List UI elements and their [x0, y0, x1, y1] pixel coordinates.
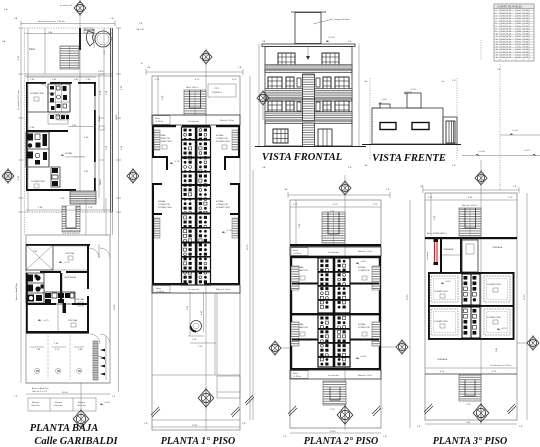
right arcs above ramp — [90, 334, 100, 344]
kitchen fixtures column — [51, 167, 60, 187]
stairs at top (from plan A bottom) — [61, 205, 63, 207]
office upper block: top-left empty room — [26, 245, 53, 270]
svg-text:+8.10: +8.10 — [501, 328, 507, 330]
lot rect — [152, 76, 240, 430]
right dim chain — [249, 76, 251, 420]
OFICINA top room — [53, 246, 88, 270]
svg-text:DORMITORIO: DORMITORIO — [434, 321, 448, 323]
svg-text:+4.05: +4.05 — [381, 99, 387, 101]
svg-text:+1.80 m: +1.80 m — [155, 121, 163, 123]
2nd floor windows — [268, 77, 349, 90]
svg-text:ta. altura 4.6: ta. altura 4.6 — [60, 4, 73, 7]
right diamond edge — [527, 335, 539, 351]
svg-text:Acera o And Pkg: Acera o And Pkg — [32, 387, 49, 390]
svg-text:Circulación: Circulación — [188, 288, 200, 291]
bottom heavy wall — [152, 283, 188, 285]
svg-text:1.A: 1.A — [4, 8, 8, 11]
svg-text:m: m — [36, 369, 39, 373]
svg-text:16.46: 16.46 — [114, 304, 116, 310]
svg-text:ESTAR-: ESTAR- — [216, 134, 224, 137]
svg-text:2.B: 2.B — [519, 426, 523, 428]
svg-text:CA: CA — [14, 17, 18, 20]
socket symbols — [36, 369, 81, 373]
svg-text:+1.35: +1.35 — [174, 161, 180, 163]
svg-text:Balcón 1.00 m: Balcón 1.00 m — [358, 375, 372, 377]
svg-text:+0.70: +0.70 — [64, 262, 70, 264]
left heavy wall lower — [26, 273, 28, 333]
lot rect — [425, 193, 517, 420]
right arrow marks — [100, 349, 105, 352]
right heavy wall — [87, 244, 89, 289]
svg-text:1.B: 1.B — [383, 436, 387, 438]
bottom stairs — [459, 375, 481, 401]
svg-text:escalera: escalera — [426, 251, 429, 260]
svg-text:ESTAR: ESTAR — [65, 152, 73, 155]
svg-text:Nivel: Nivel — [293, 250, 298, 252]
svg-text:32.20: 32.20 — [407, 294, 409, 300]
svg-text:1.B: 1.B — [386, 189, 390, 191]
balcony bottom right with rail — [70, 191, 96, 204]
between-column lines — [245, 170, 254, 420]
svg-text:CA: CA — [262, 40, 266, 43]
svg-text:32.20: 32.20 — [524, 294, 526, 300]
svg-text:+0.00: +0.00 — [104, 402, 110, 404]
svg-text:CA: CA — [284, 188, 288, 191]
right dim chain — [409, 200, 411, 428]
patio bottom line — [25, 73, 113, 75]
stub walls apartment1 — [292, 283, 318, 285]
svg-text:ESTAR-: ESTAR- — [358, 323, 366, 326]
svg-text:1.B: 1.B — [497, 69, 501, 71]
side heavy walls — [152, 125, 154, 158]
svg-text:PLANTA 1° PISO: PLANTA 1° PISO — [161, 436, 236, 447]
+1.45 line — [500, 134, 540, 136]
svg-text:16.46: 16.46 — [116, 114, 118, 120]
svg-text:1.B: 1.B — [513, 186, 517, 188]
outer step walls at y185 — [152, 183, 154, 215]
svg-text:+0.70: +0.70 — [43, 320, 49, 322]
svg-text:Vehicular: Vehicular — [77, 404, 86, 407]
circulation strip bottom — [290, 370, 381, 379]
room band1 right — [484, 276, 510, 302]
svg-text:ESTAR-: ESTAR- — [57, 115, 65, 118]
room band2 left — [431, 309, 458, 335]
bottom diamond — [337, 405, 353, 426]
top stairs — [322, 212, 345, 243]
svg-text:15.85: 15.85 — [330, 431, 336, 433]
svg-text:+10.20: +10.20 — [328, 37, 336, 39]
left dim — [295, 200, 297, 244]
svg-text:DORMITORIO: DORMITORIO — [216, 207, 230, 209]
connector lot lines — [20, 212, 22, 235]
ramp hatch strip — [93, 341, 98, 380]
svg-text:DORMITORIO: DORMITORIO — [434, 291, 448, 293]
kitchen appliance row — [44, 292, 75, 304]
band under third floor — [265, 65, 352, 71]
lot rect — [290, 200, 381, 428]
svg-text:1.B: 1.B — [110, 18, 114, 20]
room band1 left — [431, 276, 458, 302]
bottom diamond — [198, 388, 214, 409]
left diamond — [2, 168, 14, 184]
corner slashes — [288, 406, 297, 416]
windows — [380, 123, 396, 130]
svg-text:Acera o And Pkg: Acera o And Pkg — [15, 283, 18, 300]
svg-text:DORMITORIO: DORMITORIO — [487, 317, 501, 319]
svg-text:CA: CA — [364, 80, 368, 83]
dotted axis down from table — [499, 64, 501, 190]
svg-text:m: m — [57, 369, 60, 373]
svg-text:Cm: Cm — [441, 81, 445, 83]
window hatch strips C upper — [154, 130, 160, 150]
svg-text:16.46: 16.46 — [62, 392, 68, 394]
red feature — [434, 239, 439, 265]
svg-text:VISTA FRONTAL: VISTA FRONTAL — [262, 152, 342, 163]
svg-text:1.B: 1.B — [452, 165, 456, 167]
svg-text:COMEDOR-: COMEDOR- — [216, 204, 228, 206]
svg-text:Ved. de 2 x 2 S: Ved. de 2 x 2 S — [32, 391, 47, 393]
right dim chains — [118, 28, 120, 220]
svg-text:Nivel: Nivel — [293, 373, 298, 375]
svg-text:1.B: 1.B — [417, 426, 421, 428]
heavy wall mid — [26, 130, 68, 132]
bottom stairs — [323, 381, 346, 405]
bottom lot line — [152, 419, 240, 421]
bottom OFICINA room — [57, 305, 59, 331]
left vertical dim — [157, 76, 159, 115]
svg-text:Vehicular: Vehicular — [54, 404, 63, 407]
wall right of stairs — [79, 28, 81, 50]
lower service core — [318, 315, 350, 367]
bottom heavy wall — [290, 368, 381, 370]
axis diamond — [74, 0, 86, 16]
svg-text:CA: CA — [147, 66, 151, 69]
vertical dim marks inside right corridor — [99, 73, 104, 75]
svg-text:TERRAZA: TERRAZA — [492, 246, 503, 249]
ground floor — [273, 129, 288, 143]
svg-text:ESTAR-: ESTAR- — [216, 200, 224, 203]
svg-text:1.B: 1.B — [348, 167, 352, 169]
bath top-right circle — [95, 31, 111, 47]
svg-text:CA: CA — [364, 164, 368, 167]
svg-text:Balcón 1.00 m: Balcón 1.00 m — [220, 120, 234, 122]
svg-text:COMEDOR-: COMEDOR- — [358, 270, 370, 272]
svg-text:COMEDOR-: COMEDOR- — [158, 204, 170, 206]
axis line — [79, 15, 81, 212]
terrace walls upper — [440, 239, 442, 272]
apartment band: top strip — [152, 115, 240, 125]
svg-text:DORMITORIO: DORMITORIO — [158, 207, 172, 209]
dotted lot edges — [369, 78, 371, 160]
tipo tendido box — [208, 84, 236, 97]
left inner dim chain — [27, 28, 29, 212]
heavy wall under stairs zone — [425, 237, 517, 239]
lower boundary lines — [152, 374, 240, 376]
corner slashes — [424, 404, 433, 414]
svg-text:Cm: Cm — [441, 159, 445, 161]
bottom dimension — [26, 393, 110, 395]
lot boundary dotted — [25, 28, 113, 212]
svg-text:Rampa: Rampa — [32, 402, 40, 404]
svg-text:+4.05: +4.05 — [360, 261, 366, 263]
svg-text:Nivel distancia ent. 7.80 mts: Nivel distancia ent. 7.80 mts — [38, 20, 66, 23]
top stairs — [459, 208, 481, 236]
svg-text:ESTAR-: ESTAR- — [358, 266, 366, 269]
step notch walls at y158 — [152, 156, 168, 158]
svg-text:Nivel 1.80 m: Nivel 1.80 m — [186, 87, 198, 89]
+0.00 bolt — [100, 403, 104, 405]
heavy top wall — [26, 244, 90, 246]
slab — [265, 99, 352, 101]
svg-text:CA 1.35: CA 1.35 — [136, 28, 145, 31]
circulation strip — [290, 247, 381, 256]
bottom lot line — [26, 382, 110, 384]
leader note — [313, 19, 333, 24]
terrace area — [214, 293, 216, 375]
bottom diamond — [473, 403, 489, 424]
right lot wall double — [110, 28, 112, 212]
svg-text:TIPO: TIPO — [214, 88, 219, 90]
side dim verticals — [258, 44, 260, 146]
window hatch strips left/right — [291, 266, 299, 290]
svg-text:Circulación: Circulación — [328, 251, 340, 254]
window hatch strips C lower — [154, 218, 160, 238]
svg-text:1.B: 1.B — [348, 41, 352, 43]
axis diamond bottom — [73, 409, 89, 430]
svg-text:+8.10: +8.10 — [445, 281, 451, 283]
slab — [265, 121, 352, 123]
svg-text:Balcón 1.00 m: Balcón 1.00 m — [216, 289, 230, 291]
heavy top wall — [290, 244, 381, 246]
ground line — [255, 146, 366, 148]
bottom stairs going down — [62, 206, 80, 232]
left dim — [430, 193, 432, 236]
svg-text:1.B: 1.B — [139, 23, 143, 25]
svg-text:COMEDOR-: COMEDOR- — [57, 120, 69, 122]
bottom lot dotted — [25, 211, 113, 213]
svg-text:TERRAZA: TERRAZA — [443, 248, 454, 251]
fixtures left column — [184, 129, 192, 284]
double line bottom — [425, 367, 517, 369]
svg-text:N. vereda +0.10 mts: N. vereda +0.10 mts — [17, 89, 20, 110]
svg-text:Nivel: Nivel — [156, 288, 161, 290]
svg-text:VISTA FRENTE: VISTA FRENTE — [372, 153, 446, 164]
svg-text:PLANTA BAJA: PLANTA BAJA — [30, 423, 99, 434]
bottom heavy wall — [26, 189, 76, 191]
top dimension line — [21, 23, 115, 25]
window hatch strips lower — [291, 322, 299, 346]
svg-text:DORMITORIO: DORMITORIO — [31, 181, 45, 183]
svg-text:DESPENSA: DESPENSA — [64, 276, 76, 279]
corner slashes — [151, 407, 160, 417]
right diamond — [396, 339, 408, 355]
horizontal thin guide through diamonds — [2, 175, 14, 177]
svg-text:1.B: 1.B — [242, 423, 246, 425]
body outline — [265, 47, 352, 147]
bolt +1.05 — [222, 231, 226, 233]
svg-text:0.475: 0.475 — [98, 71, 104, 73]
svg-text:Circulación: Circulación — [188, 120, 200, 123]
svg-text:Patio: Patio — [29, 47, 35, 51]
svg-text:CA: CA — [262, 166, 266, 169]
svg-text:Rampa: Rampa — [78, 402, 86, 404]
svg-text:Circulación h= 1.00 m: Circulación h= 1.00 m — [490, 364, 511, 367]
svg-text:TERRAZA: TERRAZA — [437, 358, 448, 361]
balcony rails floor2 — [265, 89, 303, 100]
svg-text:1.B: 1.B — [283, 436, 287, 438]
svg-text:CA: CA — [2, 40, 6, 43]
svg-text:1.B: 1.B — [144, 423, 148, 425]
svg-text:COMEDOR-: COMEDOR- — [358, 327, 370, 329]
svg-text:DORMITORIO: DORMITORIO — [487, 284, 501, 286]
central down arrow — [307, 47, 309, 58]
svg-text:+1.80 m: +1.80 m — [293, 376, 301, 378]
svg-text:PASO: PASO — [98, 116, 101, 122]
chimney — [407, 93, 421, 108]
left fixtures column mid band — [26, 273, 44, 303]
svg-text:+0.10 DORMITORIO: +0.10 DORMITORIO — [65, 157, 86, 159]
1st floor windows (copy of floor2 shifted) — [268, 101, 349, 114]
svg-text:ESTAR-: ESTAR- — [158, 200, 166, 203]
top stairs — [184, 90, 206, 115]
central heavy vertical — [60, 273, 62, 303]
black stub — [63, 303, 67, 313]
apartment top wall — [26, 82, 46, 84]
svg-text:+2.05: +2.05 — [410, 89, 416, 91]
apartment 1 — [290, 256, 292, 370]
circulation strip bottom — [152, 285, 240, 293]
svg-text:OFICINA: OFICINA — [65, 252, 74, 255]
svg-text:Circulación: Circulación — [328, 374, 340, 377]
left diamond of plan E — [269, 340, 281, 356]
svg-text:15.85: 15.85 — [192, 425, 198, 427]
lower heavy walls — [152, 213, 162, 215]
svg-text:Rampa: Rampa — [55, 402, 63, 404]
dormitorio bottom-left — [26, 166, 49, 168]
extra diamonds — [257, 90, 269, 106]
room band2 right — [484, 309, 510, 335]
svg-text:+6.00: +6.00 — [360, 356, 366, 358]
svg-text:+1.45: +1.45 — [512, 130, 518, 132]
rampa row — [28, 398, 96, 411]
header band — [494, 4, 534, 9]
svg-text:32.20: 32.20 — [247, 244, 249, 250]
svg-text:+/-0.00: +/-0.00 — [478, 151, 486, 153]
estar + bolt — [61, 154, 65, 156]
right dim chain — [526, 193, 528, 420]
svg-text:m: m — [78, 369, 81, 373]
svg-text:OFICINA: OFICINA — [68, 319, 77, 322]
svg-text:ADO SOMELHNDO: ADO SOMELHNDO — [427, 232, 447, 235]
svg-text:+1.80 m: +1.80 m — [156, 291, 164, 293]
left dim chain + rotated texts — [20, 235, 22, 383]
bolt +6.00 — [356, 357, 360, 359]
door arcs right column — [89, 248, 99, 258]
svg-text:Tanque elevado: Tanque elevado — [334, 19, 350, 21]
svg-text:PASO: PASO — [99, 179, 102, 185]
middle heavy wall — [40, 271, 61, 273]
svg-text:1.B: 1.B — [238, 67, 242, 69]
roof slab — [262, 44, 355, 47]
patio stairs — [60, 46, 79, 69]
mid heavy wall — [290, 313, 381, 315]
svg-text:1.B: 1.B — [452, 80, 456, 82]
terrace circle — [191, 321, 202, 332]
main body — [372, 108, 443, 144]
upper service core — [318, 258, 350, 313]
upper bath cluster — [48, 84, 70, 112]
apartment right wall — [94, 82, 96, 96]
table frame — [494, 4, 534, 61]
svg-text:OFICINA: OFICINA — [75, 298, 84, 301]
core band1 — [462, 274, 480, 305]
center stair window — [303, 74, 315, 99]
step left — [372, 104, 390, 108]
svg-text:+0.15: +0.15 — [524, 150, 530, 152]
svg-text:COMEDOR-: COMEDOR- — [216, 138, 228, 140]
bolt +4.05 — [356, 262, 360, 264]
tower — [291, 11, 326, 13]
svg-text:TENDIDO: TENDIDO — [212, 92, 222, 94]
svg-text:+4.00 m: +4.00 m — [293, 253, 301, 255]
svg-text:CUADRO DE NIVELES: CUADRO DE NIVELES — [497, 6, 523, 9]
svg-text:DORMITORIO: DORMITORIO — [30, 93, 44, 95]
heavy top wall — [152, 125, 176, 127]
stub walls apartment2 — [292, 339, 318, 341]
third floor windows — [278, 53, 295, 66]
svg-text:Nivel: Nivel — [155, 118, 160, 120]
svg-text:PLANTA 2° PISO: PLANTA 2° PISO — [304, 436, 379, 447]
ground — [362, 144, 461, 146]
apartment band 1 — [428, 272, 515, 274]
svg-text:Vehicular: Vehicular — [31, 404, 40, 407]
fixtures right column — [199, 129, 207, 284]
heavy wall under mid band — [26, 303, 56, 305]
right tall part — [443, 117, 457, 144]
svg-text:PLANTA 3° PISO: PLANTA 3° PISO — [433, 436, 508, 447]
lot boundary — [26, 235, 110, 383]
svg-text:Max hor 1.00 m: Max hor 1.00 m — [462, 204, 477, 207]
center core strip upper — [462, 240, 478, 272]
left wall — [26, 82, 28, 191]
svg-text:Calle GARIBALDI: Calle GARIBALDI — [34, 436, 118, 447]
lower bath cluster very dark — [26, 132, 49, 167]
mid heavy wall — [428, 305, 515, 307]
bottom heavy wall of apartments — [428, 338, 515, 340]
core band2 — [462, 307, 480, 338]
svg-text:Balcón 1.00 m: Balcón 1.00 m — [358, 251, 372, 253]
bolt level — [170, 162, 174, 164]
svg-text:DORMITORIO: DORMITORIO — [216, 141, 230, 143]
ground line right — [462, 155, 540, 157]
central service core (textured) — [182, 127, 211, 285]
bottom dotted lot — [290, 427, 381, 429]
bottom dim — [425, 423, 517, 425]
bath shapes — [86, 31, 94, 46]
kitchen row under bath — [26, 111, 70, 113]
vertical paso line right — [98, 74, 100, 198]
right dim chain plan B — [118, 235, 120, 392]
right diamond — [127, 168, 139, 184]
garage top heavy wall — [26, 331, 89, 334]
svg-text:+1.05: +1.05 — [226, 230, 232, 232]
